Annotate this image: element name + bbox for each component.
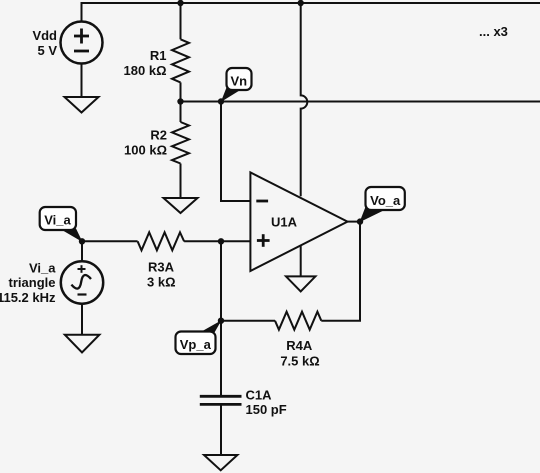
svg-text:triangle: triangle — [9, 275, 56, 290]
svg-text:R4A: R4A — [286, 338, 313, 353]
svg-text:Vn: Vn — [230, 74, 247, 89]
svg-text:R2: R2 — [150, 128, 167, 143]
svg-text:Vi_a: Vi_a — [44, 213, 71, 228]
svg-text:3 kΩ: 3 kΩ — [147, 275, 176, 290]
svg-text:C1A: C1A — [246, 387, 273, 402]
svg-text:Vo_a: Vo_a — [370, 193, 401, 208]
svg-text:7.5 kΩ: 7.5 kΩ — [280, 353, 319, 368]
svg-text:U1A: U1A — [271, 215, 298, 230]
svg-text:Vi_a: Vi_a — [29, 261, 56, 276]
svg-text:R1: R1 — [150, 48, 167, 63]
svg-text:150 pF: 150 pF — [246, 402, 287, 417]
svg-text:R3A: R3A — [148, 260, 175, 275]
svg-text:5 V: 5 V — [37, 43, 57, 58]
svg-text:115.2 kHz: 115.2 kHz — [0, 290, 56, 305]
svg-text:100 kΩ: 100 kΩ — [124, 143, 167, 158]
svg-text:180 kΩ: 180 kΩ — [124, 63, 167, 78]
svg-text:Vdd: Vdd — [32, 28, 57, 43]
svg-text:Vp_a: Vp_a — [180, 337, 212, 352]
svg-text:... x3: ... x3 — [479, 24, 508, 39]
